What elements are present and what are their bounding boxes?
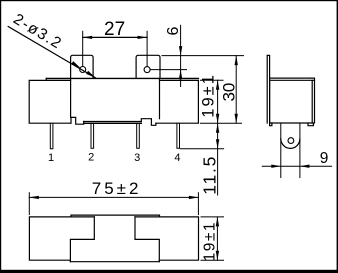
side view: bracket strip (267, 55, 269, 123)
arrowhead: leader 2-ø3.2 (86, 71, 95, 78)
side view: left foot (270, 123, 272, 126)
pin 4 (177, 123, 180, 148)
svg-text:6: 6 (165, 27, 182, 36)
arrowhead: 9 right (points left) (300, 165, 310, 168)
dim 11.5 bottom extension line (pin ends) (180, 148, 223, 150)
svg-text:3: 3 (134, 152, 140, 164)
svg-text:9: 9 (320, 150, 329, 167)
bottom view outline (29, 217, 198, 262)
front view: center bottom double line lower (84, 122, 142, 124)
svg-text:1: 1 (48, 152, 54, 164)
dim 19+-1 bottom view bottom extension (201, 259, 224, 261)
bottom view raised top line (71, 215, 160, 217)
side view: blade rounded bottom (281, 139, 300, 149)
dim 19+-1 bottom view line (216, 217, 218, 260)
front view: center bottom double line upper (84, 121, 142, 123)
dim 27 line (83, 36, 147, 38)
dim line vertical x=217.6 (19 and 11.5) (217, 80, 219, 195)
front view: center housing sides (71, 78, 160, 118)
dim 2-ø3.2 leader line (8, 27, 95, 78)
dim 6: dimension line (180, 25, 182, 86)
shared bottom extension line (19 and 30) (200, 122, 241, 124)
arrowhead: leader at hole edge (71, 61, 80, 68)
front view: right end block (156, 80, 199, 123)
arrowhead: 11.5 bottom (points down) (216, 139, 219, 149)
dim 9 line (262, 165, 331, 167)
frame border left (0, 0, 1, 273)
svg-text:19±1: 19±1 (199, 73, 217, 118)
side view: body top inner line (270, 79, 315, 81)
frame border bottom (0, 270, 338, 273)
dim 30 line (235, 56, 237, 124)
dim 19+-1 front: top extension line (200, 79, 223, 81)
svg-text:4: 4 (174, 152, 180, 164)
svg-text:30: 30 (220, 83, 239, 102)
dim 27 right extension line (146, 31, 148, 66)
dim 6: hole-center extension line (151, 69, 187, 71)
pin 1 (50, 123, 53, 149)
dim 75 line (29, 196, 198, 198)
dim 27 left extension line (82, 31, 84, 66)
svg-text:75±2: 75±2 (92, 179, 142, 198)
frame border right (337, 0, 338, 273)
arrowhead: 19 bottom view bottom (points down) (216, 251, 219, 261)
side view: blade right edge / extension (299, 123, 301, 178)
front view: right notch and foot (141, 119, 156, 126)
arrowhead: 27 right (138, 36, 148, 39)
svg-text:27: 27 (104, 19, 125, 40)
dim 75 left extension line (28, 193, 30, 215)
side view: body right inner line (311, 80, 313, 123)
side view: right foot (308, 123, 313, 126)
dim 75 right extension line (197, 193, 199, 215)
side view: blade left edge / extension (280, 123, 282, 178)
pin 3 (137, 123, 140, 148)
front view: right mounting tab (136, 55, 160, 78)
side view: body outline (270, 78, 315, 123)
arrowhead: 19 front bottom (points down) (216, 114, 219, 124)
arrowhead: 6 lower (points up) (179, 70, 182, 80)
arrowhead: 75 right (points right) (189, 196, 199, 199)
bottom view left step (70, 217, 94, 262)
arrowhead: 11.5 top (points up) (216, 123, 219, 133)
front view: right tab hole (144, 67, 150, 73)
dim 6: tab-top extension line (162, 55, 244, 57)
front view: left lip step (45, 78, 47, 80)
arrowhead: 9 left (points right) (271, 165, 281, 168)
arrowhead: 19 front top (points up) (216, 80, 219, 90)
arrowhead: 6 upper (points down) (179, 46, 182, 56)
dim 19+-1 bottom view top extension (201, 216, 224, 218)
arrowhead: 75 left (points left) (29, 196, 39, 199)
front view: top line of center housing and lips (46, 77, 198, 79)
svg-text:11.5: 11.5 (199, 155, 219, 195)
svg-text:2: 2 (88, 151, 94, 163)
frame border top (0, 0, 338, 1)
pin 2 (91, 123, 94, 148)
front view: left mounting tab (71, 55, 94, 78)
arrowhead: 27 left (83, 36, 93, 39)
arrowhead: 30 top (points up) (235, 56, 238, 66)
front view: left tab hole (80, 67, 86, 73)
side view: blade hole (288, 138, 294, 144)
arrowhead: 30 bottom (points down) (235, 114, 238, 124)
arrowhead: 19 bottom view top (points up) (216, 217, 219, 227)
front view: left notch and foot (71, 117, 84, 124)
bottom view right step (135, 217, 159, 262)
front view: left end block (29, 80, 71, 123)
svg-text:19±1: 19±1 (202, 221, 219, 261)
